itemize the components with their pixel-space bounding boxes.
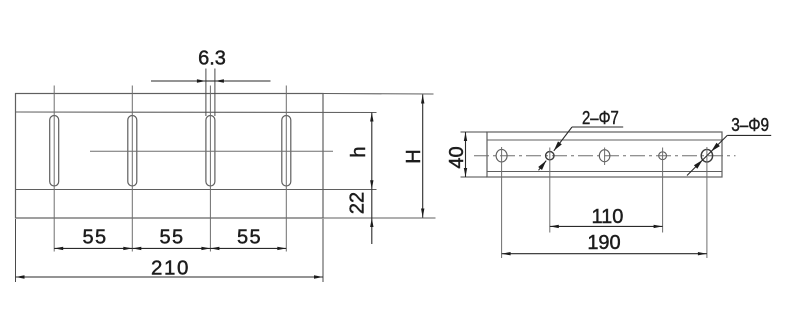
side view dashed centerline xyxy=(474,155,736,157)
210 extension line right xyxy=(322,219,324,282)
hole 3 centerline xyxy=(604,148,606,166)
190 dimension line xyxy=(502,252,707,255)
svg-text:3–Φ9: 3–Φ9 xyxy=(731,114,769,135)
bottom edge extension line (to H dim) xyxy=(323,217,436,219)
hole 5 centerline / 190 extension xyxy=(706,147,708,258)
slot 1 xyxy=(50,116,59,187)
svg-text:6.3: 6.3 xyxy=(198,48,226,70)
h dimension arrow xyxy=(370,113,373,190)
H dimension arrow xyxy=(421,95,424,218)
slot 4 xyxy=(282,116,291,187)
55 dimension line 2 xyxy=(132,247,210,250)
22 dimension line xyxy=(371,190,373,219)
hole 1 centerline / 190 extension xyxy=(501,147,503,258)
hole 4 centerline / 110 extension xyxy=(662,148,664,233)
svg-text:2–Φ7: 2–Φ7 xyxy=(582,107,619,128)
6.3 extension line right xyxy=(214,69,216,117)
2-phi7 callout leader xyxy=(538,127,623,170)
svg-text:190: 190 xyxy=(587,232,620,254)
top bend line xyxy=(16,111,377,114)
svg-text:110: 110 xyxy=(592,206,624,228)
svg-text:h: h xyxy=(348,146,370,157)
40 dimension arrow xyxy=(464,132,467,177)
svg-text:H: H xyxy=(403,149,425,163)
hole 2 (phi7) xyxy=(546,152,554,160)
slot 4 centerline xyxy=(285,86,287,252)
3-phi9 callout leader xyxy=(687,135,771,175)
55 dimension line 3 xyxy=(210,247,286,250)
svg-text:55: 55 xyxy=(82,227,107,249)
hole 3 xyxy=(599,150,610,162)
bottom bend line xyxy=(16,189,377,191)
svg-text:55: 55 xyxy=(159,227,184,249)
210 dimension line xyxy=(16,275,324,278)
svg-text:22: 22 xyxy=(347,192,369,214)
top edge extension line (to H dim) xyxy=(323,93,434,96)
40 bottom extension line xyxy=(461,176,488,178)
horizontal centerline front view xyxy=(90,150,333,152)
6.3 middle tie line xyxy=(206,80,215,82)
slot 2 centerline xyxy=(131,86,133,252)
55 dimension line 1 xyxy=(54,247,132,250)
22 lower outside arrow xyxy=(370,218,373,244)
40 top extension line xyxy=(461,131,488,133)
hole 4 (phi7) xyxy=(659,152,667,160)
slot 1 centerline xyxy=(53,86,55,252)
hole 5 (phi9) xyxy=(701,149,712,162)
side view inner bottom line xyxy=(487,171,722,173)
6.3 left arrow xyxy=(151,79,206,82)
slot 3 xyxy=(206,116,215,187)
slot 3 centerline xyxy=(209,86,211,252)
hole 1 xyxy=(496,149,507,162)
side view plate outline xyxy=(487,132,722,177)
plate front view outline xyxy=(16,94,324,219)
svg-text:40: 40 xyxy=(446,146,468,168)
6.3 right arrow xyxy=(215,79,271,82)
hole 2 centerline / 110 extension xyxy=(549,148,551,233)
side view inner top line xyxy=(487,139,722,141)
svg-text:210: 210 xyxy=(151,257,190,280)
slot 2 xyxy=(128,116,137,187)
110 dimension line xyxy=(550,225,663,228)
svg-text:55: 55 xyxy=(237,227,262,249)
210 extension line left xyxy=(15,219,17,282)
6.3 extension line left xyxy=(205,69,207,117)
